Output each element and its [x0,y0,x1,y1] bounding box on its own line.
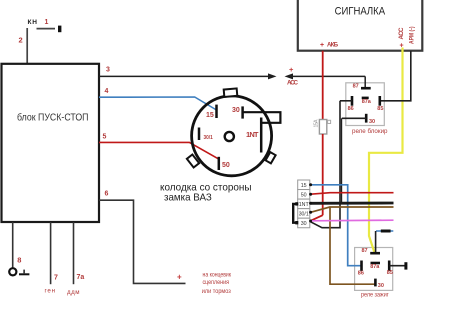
svg-text:30: 30 [301,221,307,227]
svg-text:86: 86 [358,271,364,277]
svg-text:50: 50 [301,192,307,198]
svg-text:ACC: ACC [398,27,405,40]
svg-text:15: 15 [301,183,307,189]
svg-text:+: + [177,273,182,282]
svg-text:2: 2 [19,36,23,45]
svg-text:АРМ (-): АРМ (-) [409,27,415,45]
svg-text:15: 15 [206,112,214,119]
svg-text:86: 86 [348,106,354,112]
svg-text:ддм: ддм [67,289,80,296]
svg-text:87а: 87а [370,264,380,270]
svg-text:на концевик: на концевик [203,271,232,278]
svg-text:КН: КН [28,19,38,26]
svg-text:3: 3 [106,67,110,74]
svg-text:сцепления: сцепления [203,279,230,286]
svg-text:85: 85 [387,270,393,276]
svg-text:реле зажиг: реле зажиг [361,292,389,299]
svg-text:1NT: 1NT [299,202,310,208]
svg-text:4: 4 [105,88,109,95]
svg-text:6: 6 [105,191,109,198]
svg-text:50: 50 [222,162,230,169]
svg-text:ген: ген [45,287,56,294]
svg-text:30: 30 [378,283,384,289]
svg-text:1: 1 [45,19,49,26]
svg-text:30: 30 [232,107,240,114]
svg-text:или тормоз: или тормоз [202,288,231,295]
svg-text:7а: 7а [77,274,85,281]
svg-text:30: 30 [369,119,375,125]
svg-text:87: 87 [353,84,359,90]
svg-text:блок ПУСК-СТОП: блок ПУСК-СТОП [17,111,89,123]
svg-text:СИГНАЛКА: СИГНАЛКА [335,5,386,17]
svg-text:87а: 87а [362,99,372,105]
svg-text:8: 8 [17,256,21,265]
svg-text:+: + [320,42,324,49]
svg-text:1NT: 1NT [246,130,259,139]
svg-text:5: 5 [103,133,107,140]
svg-text:замка ВАЗ: замка ВАЗ [164,191,212,203]
svg-text:15A: 15A [314,119,320,128]
svg-text:АКБ: АКБ [327,42,339,48]
svg-text:7: 7 [54,274,58,281]
svg-text:30/1: 30/1 [299,212,309,218]
svg-text:ACC: ACC [287,80,299,87]
svg-text:+: + [289,65,294,74]
svg-text:30/1: 30/1 [204,135,213,141]
svg-text:реле блокир: реле блокир [352,128,388,135]
svg-text:85: 85 [377,106,383,112]
svg-text:87: 87 [362,248,368,254]
